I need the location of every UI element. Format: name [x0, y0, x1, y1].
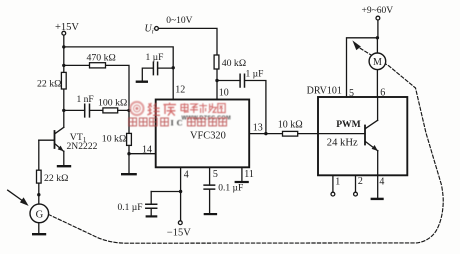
- wire 1nF to 100k: [90, 109, 129, 111]
- junction rail-1nF: [62, 109, 65, 112]
- junction tach node: [37, 193, 40, 196]
- svg-text:1 nF: 1 nF: [77, 95, 94, 105]
- svg-text:470 kΩ: 470 kΩ: [87, 52, 116, 63]
- svg-text:6: 6: [380, 88, 385, 99]
- svg-text:22 kΩ: 22 kΩ: [37, 78, 61, 89]
- svg-text:4: 4: [379, 176, 384, 187]
- svg-text:0~10V: 0~10V: [166, 16, 192, 26]
- junction pin12 node: [172, 66, 175, 69]
- watermark text ku: [163, 103, 176, 116]
- watermark text dian: [181, 103, 189, 113]
- junction rail-470k: [62, 64, 65, 67]
- watermark logo seal: [130, 102, 143, 115]
- junction pin4 node: [179, 190, 182, 193]
- watermark text zi: [190, 104, 198, 113]
- svg-text:1 µF: 1 µF: [246, 69, 264, 79]
- junction pin13 node: [264, 132, 267, 135]
- power terminal -15V: [167, 221, 191, 239]
- resistor R3 100 kOhm: [98, 97, 127, 113]
- svg-text:G: G: [36, 209, 44, 220]
- pin 11 lead of U1: [241, 167, 243, 181]
- svg-text:2: 2: [358, 176, 363, 187]
- wire +15V top rail to pin 12: [64, 47, 173, 100]
- capacitor C1 1 nF: [77, 95, 94, 117]
- wire 470k branch: [64, 65, 129, 173]
- driver U2 DRV101 box: [307, 86, 408, 176]
- svg-text:1 µF: 1 µF: [146, 53, 164, 63]
- ground under Q2 emitter: [372, 198, 383, 200]
- wire C3 right lead: [158, 67, 174, 69]
- svg-text:10: 10: [219, 88, 229, 99]
- wire to pin 14: [129, 153, 156, 155]
- wire Ui to pin 10: [158, 28, 217, 99]
- capacitor C3 1 uF: [146, 53, 164, 75]
- wire pin10 node to 1uF: [217, 80, 240, 82]
- resistor R6 40 kOhm: [214, 55, 246, 69]
- svg-text:12: 12: [175, 84, 185, 95]
- svg-text:5: 5: [349, 88, 354, 99]
- coupling arrow at G: [8, 190, 29, 206]
- junction rail-top: [62, 45, 65, 48]
- svg-text:10 kΩ: 10 kΩ: [102, 134, 126, 145]
- pin 1 lead of U2: [331, 175, 340, 196]
- svg-text:M: M: [373, 57, 382, 68]
- op-amp U1 VFC320 box: [156, 100, 250, 168]
- ground under C3: [137, 80, 147, 82]
- svg-text:I: I: [171, 119, 174, 128]
- tachogenerator G: [30, 204, 49, 223]
- svg-text:VFC320: VFC320: [190, 131, 226, 142]
- wire base to tach: [38, 140, 40, 204]
- junction pin10 node: [215, 79, 218, 82]
- ground under 10k node: [122, 173, 135, 175]
- svg-text:DRV101: DRV101: [307, 86, 342, 97]
- watermark text shi: [199, 103, 207, 113]
- svg-text:4: 4: [184, 169, 189, 180]
- svg-text:C: C: [177, 119, 183, 128]
- wire 1nF branch left: [64, 109, 85, 111]
- power terminal +9~60V: [362, 6, 394, 38]
- resistor R2 22 kOhm upper: [37, 72, 66, 89]
- ground under G: [33, 223, 45, 235]
- resistor R1 470 kOhm: [87, 52, 116, 68]
- capacitor C4 0.1 uF: [118, 192, 157, 216]
- svg-text:−15V: −15V: [167, 228, 191, 239]
- wire +15V rail: [63, 35, 65, 127]
- svg-text:22 kΩ: 22 kΩ: [44, 173, 68, 184]
- svg-text:+15V: +15V: [55, 22, 79, 33]
- watermark text wei: [147, 103, 160, 116]
- junction node 470k-100k: [127, 109, 130, 112]
- resistor R4 10 kOhm: [102, 133, 132, 145]
- wire pin 13 to PWM base: [249, 133, 365, 135]
- svg-text:5: 5: [213, 169, 218, 180]
- pin 5 lead of U1: [209, 167, 211, 185]
- svg-text:0.1 µF: 0.1 µF: [218, 183, 243, 193]
- svg-text:13: 13: [253, 123, 263, 134]
- watermark slogan row: [129, 118, 227, 126]
- ground under C5: [205, 213, 216, 215]
- svg-text:10 kΩ: 10 kΩ: [278, 119, 303, 130]
- watermark text wang: [218, 104, 225, 113]
- svg-text:+9~60V: +9~60V: [362, 6, 394, 16]
- svg-text:11: 11: [244, 169, 254, 180]
- capacitor C5 0.1 uF: [204, 183, 243, 213]
- svg-text:24 kHz: 24 kHz: [327, 138, 358, 149]
- coupling arrow at M: [352, 40, 361, 50]
- svg-text:PWM: PWM: [336, 119, 361, 130]
- wire supply to motor: [376, 38, 378, 53]
- resistor R5 22 kOhm lower: [37, 170, 69, 184]
- wire pin5 of U2 to supply: [347, 38, 378, 97]
- wire 1uF to pin13 node: [245, 81, 266, 134]
- wire C3 left lead to ground: [142, 68, 153, 80]
- transistor Q1 2N2222: [39, 127, 98, 165]
- ground under pin 11: [236, 181, 248, 183]
- wire motor to pin 6: [376, 70, 378, 98]
- svg-text:100 kΩ: 100 kΩ: [98, 97, 127, 108]
- svg-text:0.1 µF: 0.1 µF: [118, 203, 143, 213]
- svg-text:14: 14: [142, 145, 152, 156]
- svg-text:1: 1: [335, 177, 340, 188]
- wire pin4 to C4: [151, 191, 180, 193]
- pin 2 lead of U2: [354, 175, 363, 196]
- mechanical coupling dashed link: [49, 48, 443, 243]
- capacitor C2 1 uF integrator: [240, 69, 263, 87]
- resistor R7 10 kOhm: [278, 119, 303, 136]
- junction node pin14: [127, 152, 130, 155]
- svg-text:40 kΩ: 40 kΩ: [222, 58, 246, 69]
- ground under Q1 emitter: [58, 165, 70, 167]
- input terminal Ui: [145, 16, 193, 36]
- junction supply node: [376, 36, 379, 39]
- svg-text:2N2222: 2N2222: [67, 141, 98, 152]
- ground under C4: [147, 215, 157, 217]
- power terminal +15V: [55, 22, 79, 35]
- motor M: [369, 53, 386, 70]
- transistor Q2 in DRV101: [365, 97, 378, 198]
- watermark text chang: [208, 103, 216, 113]
- pin 4 lead of U1: [180, 167, 182, 220]
- svg-text:WWW.DZSC.COM: WWW.DZSC.COM: [182, 116, 231, 122]
